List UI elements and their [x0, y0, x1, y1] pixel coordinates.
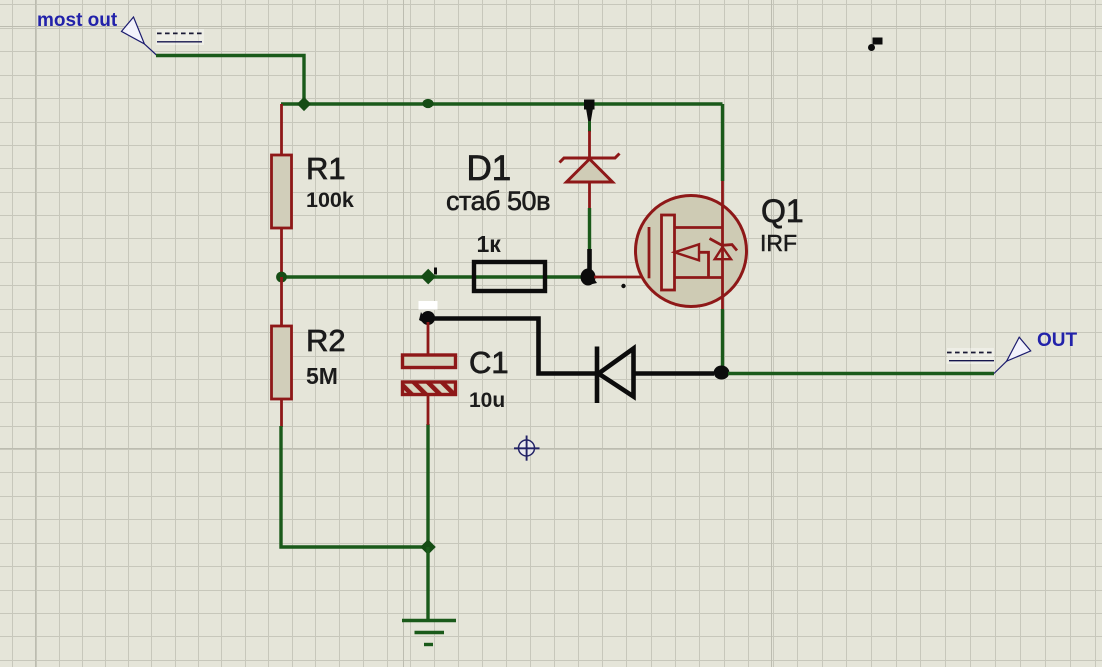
zener diode D1: [446, 100, 620, 273]
terminal: OUT: [947, 330, 1078, 374]
svg-text:1к: 1к: [477, 231, 502, 257]
svg-text:OUT: OUT: [1037, 330, 1078, 351]
svg-text:C1: C1: [469, 345, 509, 380]
svg-text:D1: D1: [467, 149, 512, 188]
wire (selected black): gate node to C1 top / diode branch: [428, 319, 597, 374]
pin Q1 gate (red): [594, 276, 649, 279]
pin D1 cathode: [588, 131, 591, 158]
svg-text:R2: R2: [306, 323, 346, 358]
svg-text:стаб 50в: стаб 50в: [446, 186, 550, 216]
C1 top plate: [403, 355, 456, 368]
terminal label underline (dashed): [157, 32, 203, 34]
body diode zener bar: [710, 239, 738, 251]
stray tick near 1k: [434, 268, 437, 275]
transistor Q1 (IRF MOSFET): [636, 180, 804, 310]
node junction at 281,277: [276, 272, 287, 283]
terminal triangle (input): [156, 29, 204, 45]
wire: most out to top rail: [156, 56, 304, 105]
drain link: [675, 226, 723, 229]
diode D2 (selected black, pointing left): [597, 347, 714, 404]
terminal: most out: [37, 10, 204, 55]
svg-text:10u: 10u: [469, 389, 505, 412]
substrate arrow: [675, 244, 700, 260]
wire: top rail: [281, 102, 723, 105]
resistor R2: [272, 277, 346, 427]
pin R2 bottom: [280, 399, 283, 427]
pin R2 top: [280, 277, 283, 326]
node junction at 428,277: [420, 269, 436, 285]
pin D1 anode: [588, 182, 591, 209]
wire: R2 bottom to ground rail: [281, 426, 428, 547]
resistor 1k (selected, black): [474, 231, 545, 291]
pin C1 top: [427, 322, 430, 355]
capacitor C1: [403, 322, 509, 425]
node junction blob at C1 top (black): [419, 311, 435, 325]
wire: Q1 source down to out junction: [721, 309, 724, 368]
body diode triangle: [715, 247, 731, 259]
source link: [675, 276, 723, 279]
triangle: [599, 349, 634, 397]
pin marker (black square) at top of D1: [584, 100, 595, 110]
pin Q1 drain/source vertical: [721, 180, 724, 310]
node out junction blob (black): [714, 366, 730, 380]
wire (selected black) into gate node: [587, 249, 592, 272]
wire: C1 bottom down to ground junction: [426, 424, 429, 547]
svg-text:IRF: IRF: [760, 230, 797, 256]
stray dot near Q1 gate: [621, 284, 625, 288]
white patch artifact: [419, 301, 438, 310]
wire: out junction to OUT terminal: [728, 372, 994, 375]
D1 cathode bar (zener): [560, 154, 620, 163]
stray mark top right: [868, 38, 883, 52]
channel bar: [662, 215, 675, 290]
svg-text:R1: R1: [306, 151, 346, 186]
resistor R1: [272, 104, 354, 277]
svg-text:5M: 5M: [306, 363, 338, 389]
pin C1 bottom: [427, 395, 430, 426]
C1 bottom plate (hatched): [403, 382, 456, 395]
cathode bar: [595, 347, 600, 404]
svg-text:most out: most out: [37, 10, 118, 31]
node junction at 428,547: [420, 539, 436, 555]
node junction at 427,104: [422, 99, 433, 108]
ground: [402, 621, 456, 645]
origin marker: [514, 436, 540, 461]
svg-text:Q1: Q1: [761, 193, 804, 229]
node gate junction blob (black): [581, 269, 598, 286]
wire stub green above D1: [588, 121, 591, 132]
wire: D1 anode down to gate node: [588, 208, 591, 250]
wire: top rail corner down to Q1 drain: [721, 104, 724, 181]
pin R1 bottom: [280, 228, 283, 277]
wire to out junction: [634, 371, 715, 376]
wire: middle rail y=277: [281, 275, 586, 278]
gate bar: [648, 227, 651, 278]
svg-text:100k: 100k: [306, 188, 354, 212]
pin R1 top: [280, 104, 283, 155]
D1 triangle: [567, 159, 613, 182]
node junction at 303,104: [297, 97, 311, 111]
wire: ground stem: [426, 547, 429, 620]
